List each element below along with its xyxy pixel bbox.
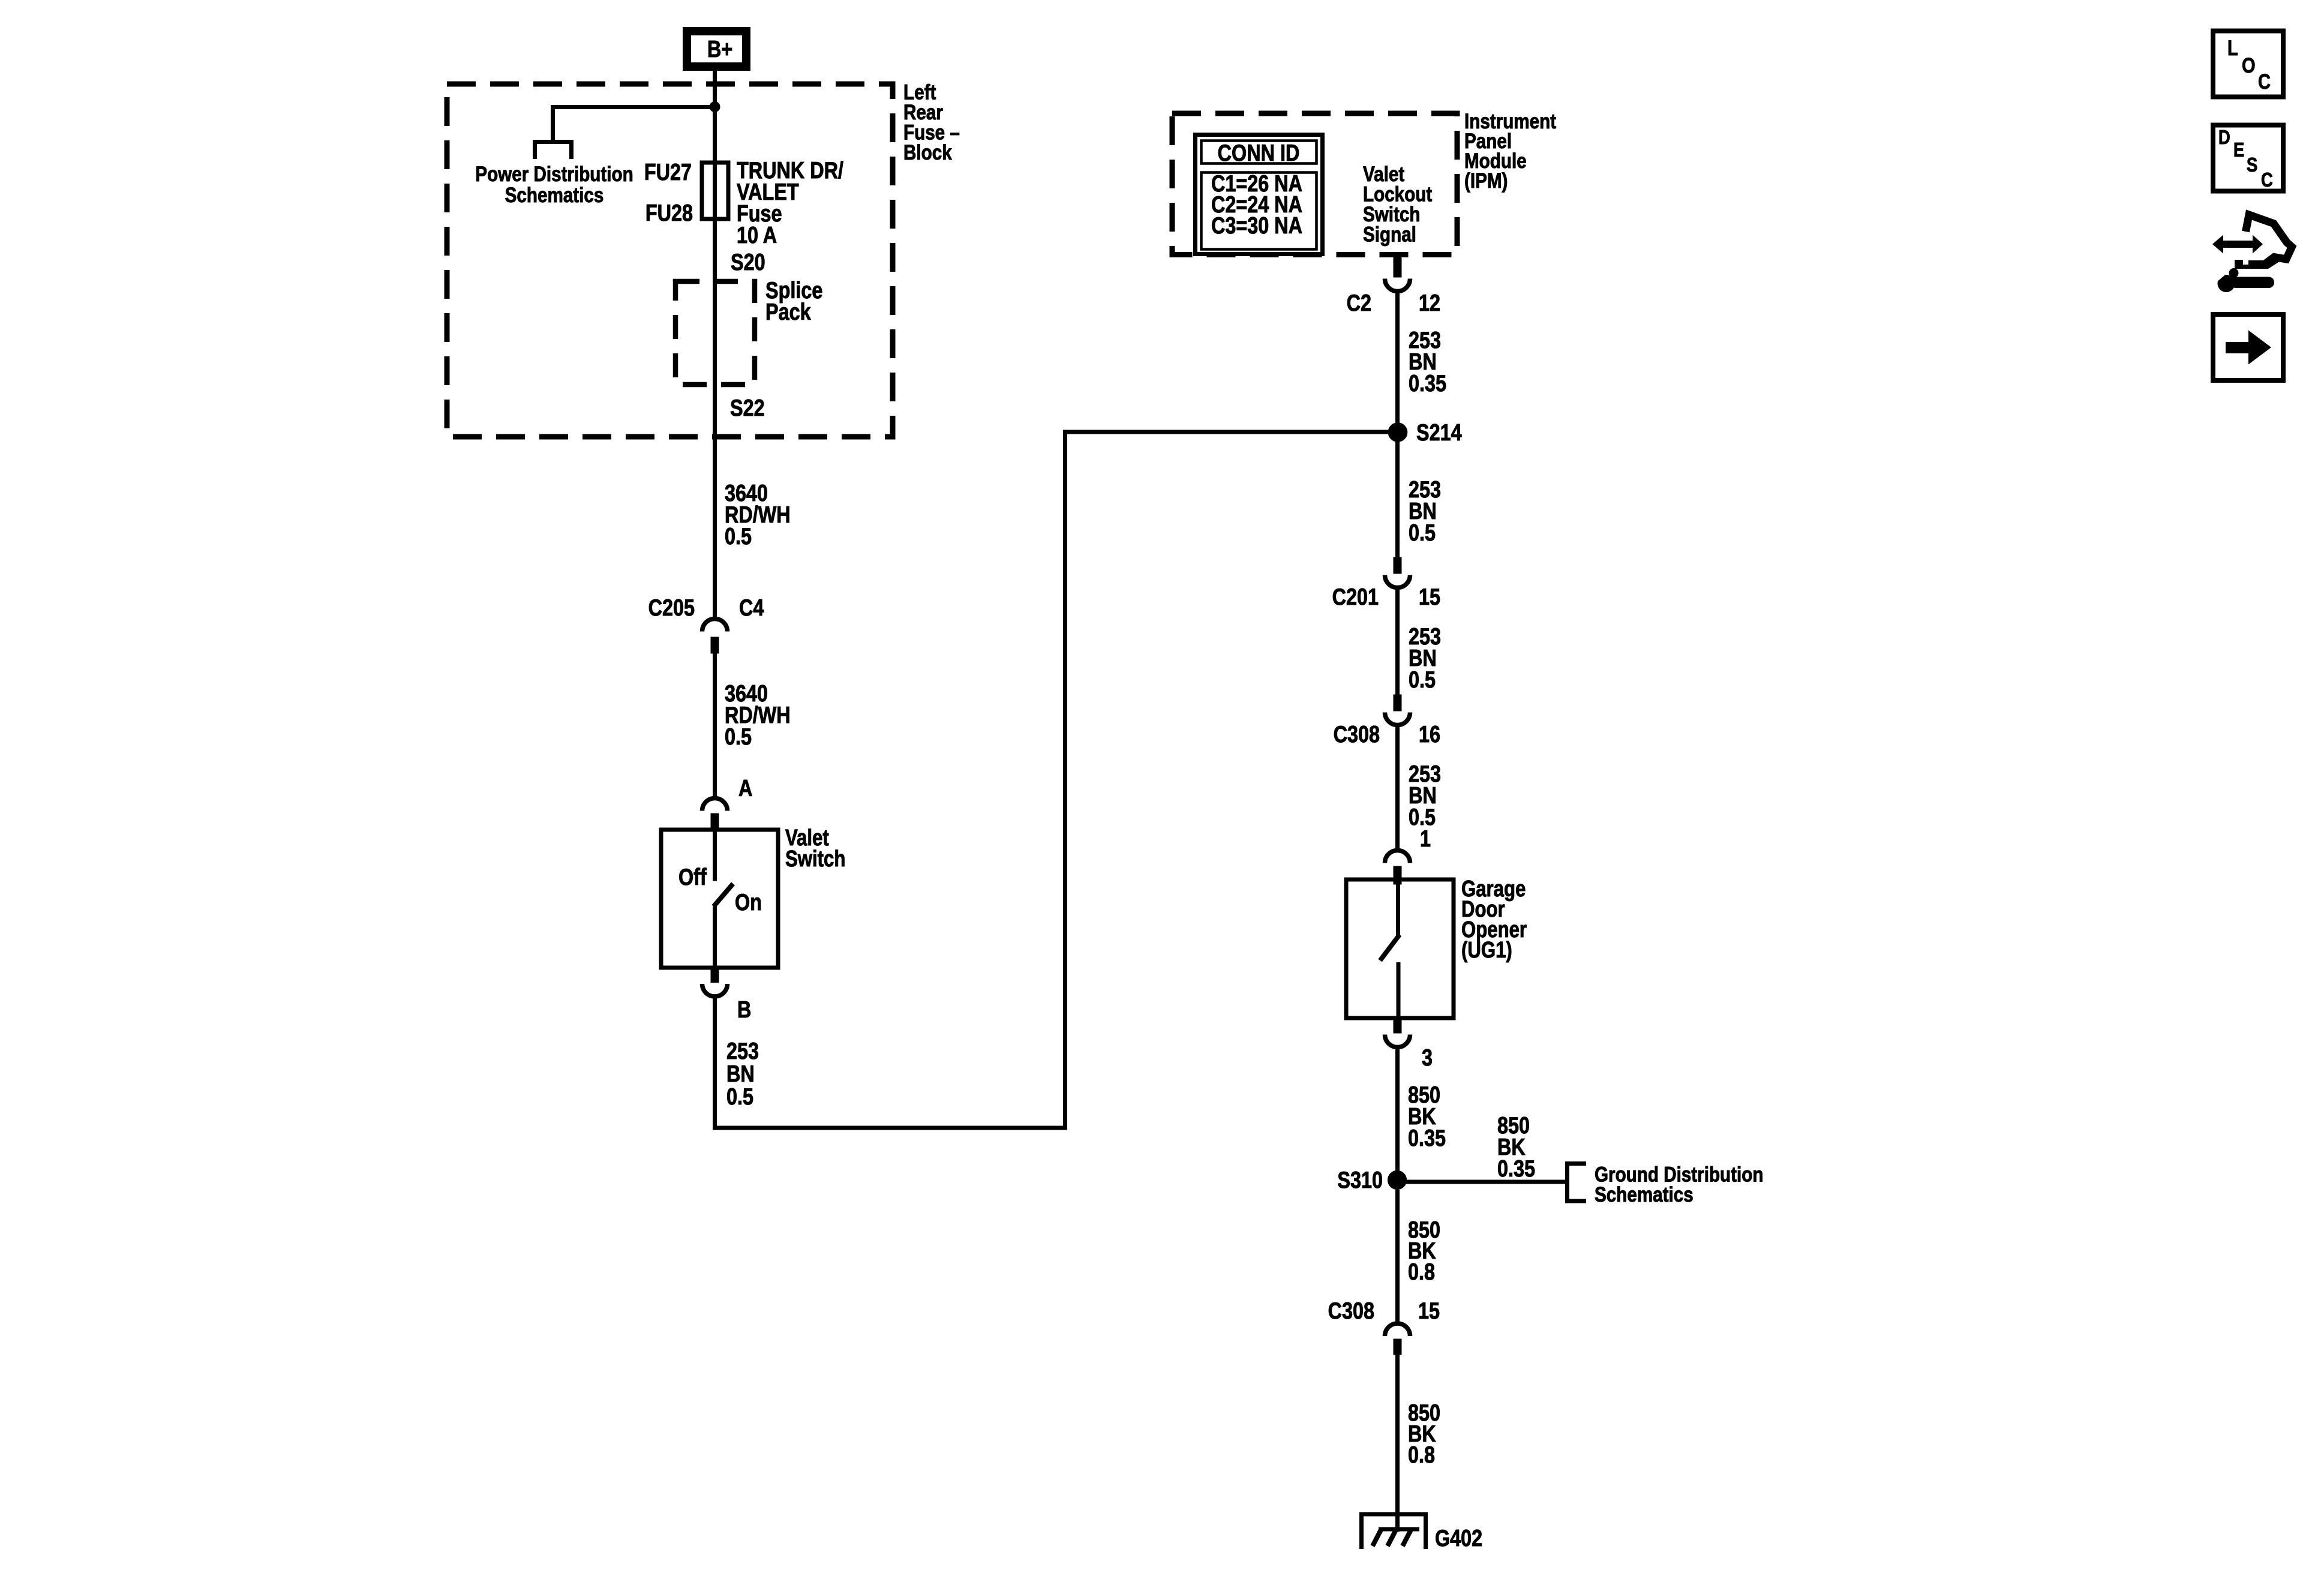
svg-text:Signal: Signal: [1363, 222, 1416, 246]
pin label 16: [1419, 721, 1440, 748]
label Garage Door Opener (UG1): [1461, 876, 1527, 963]
svg-text:A: A: [738, 775, 752, 801]
svg-text:3: 3: [1422, 1044, 1433, 1071]
wire label 253 BN 0.5 (C201 to C308): [1409, 623, 1441, 693]
ground symbol G402: [1359, 1514, 1428, 1549]
junction S214: [1388, 423, 1407, 442]
svg-text:C3=30 NA: C3=30 NA: [1211, 212, 1302, 239]
icon DESC box: [2213, 125, 2283, 191]
wire label 850 BK 0.35 (left): [1408, 1082, 1446, 1151]
svg-text:S310: S310: [1337, 1167, 1383, 1193]
svg-text:CONN ID: CONN ID: [1218, 140, 1300, 166]
label Valet Lockout Switch Signal: [1363, 161, 1432, 246]
instrument panel module box (dashed): [1172, 113, 1457, 255]
icon LOC box: [2213, 31, 2283, 97]
svg-text:C4: C4: [739, 595, 764, 621]
wire C308-15 to ground G402: [1395, 1355, 1400, 1532]
svg-text:Pack: Pack: [765, 299, 811, 325]
label Splice Pack: [765, 277, 822, 325]
svg-text:15: 15: [1419, 584, 1440, 610]
wire valet B to S214: [715, 432, 1398, 1128]
svg-text:16: 16: [1419, 721, 1440, 748]
wire C4 to valet switch pin A: [713, 653, 717, 798]
svg-text:(IPM): (IPM): [1464, 168, 1508, 192]
power symbol B+: [687, 31, 746, 67]
svg-text:O: O: [2242, 53, 2256, 77]
wire branch to power distribution: [553, 107, 715, 142]
node label S20: [731, 249, 765, 275]
ground label G402: [1435, 1525, 1482, 1551]
svg-text:FU28: FU28: [645, 200, 693, 226]
wire label 850 BK 0.8 (lower): [1408, 1400, 1440, 1468]
fuse block box Left Rear Fuse Block (dashed): [447, 84, 893, 437]
wire C201 to C308: [1395, 587, 1400, 695]
pin label 3: [1422, 1044, 1433, 1071]
svg-text:C: C: [2258, 70, 2271, 93]
wire label 3640 RD/WH 0.5 (upper): [725, 480, 791, 550]
svg-text:(UG1): (UG1): [1461, 938, 1512, 963]
splice pack box (dashed): [675, 281, 755, 385]
node label S310: [1337, 1167, 1383, 1193]
svg-text:BN: BN: [726, 1061, 755, 1087]
wire label 253 BN 0.5 (S214 to C201): [1409, 476, 1441, 546]
pin label 15 (C308): [1418, 1298, 1440, 1324]
svg-text:15: 15: [1418, 1298, 1440, 1324]
connector pin A symbol: [702, 798, 728, 830]
garage door opener switch contacts and blade: [1380, 881, 1400, 1016]
connector label C2: [1347, 290, 1371, 316]
pin label 15: [1419, 584, 1440, 610]
svg-text:C308: C308: [1328, 1298, 1374, 1324]
wire C2-12 to S214: [1395, 291, 1400, 557]
svg-text:C2: C2: [1347, 290, 1371, 316]
connector C2 pin 12 symbol: [1385, 256, 1410, 292]
svg-text:1: 1: [1420, 825, 1431, 852]
svg-text:0.5: 0.5: [1409, 520, 1436, 546]
svg-text:0.35: 0.35: [1408, 1125, 1446, 1151]
svg-text:B: B: [737, 996, 751, 1023]
junction S310: [1388, 1170, 1406, 1189]
wire label 3640 RD/WH 0.5 (lower): [725, 680, 791, 750]
svg-text:Switch: Switch: [785, 846, 845, 872]
valet switch box: [661, 830, 778, 968]
table header CONN ID: [1218, 140, 1300, 166]
node label S214: [1416, 419, 1462, 446]
svg-text:Schematics: Schematics: [1595, 1182, 1694, 1206]
svg-text:G402: G402: [1435, 1525, 1482, 1551]
note Power Distribution Schematics: [475, 161, 633, 206]
wire label 253 BN 0.35 (IPM): [1409, 327, 1446, 397]
label Left Rear Fuse Block: [903, 80, 960, 164]
wire S310 to C308-15: [1395, 1190, 1400, 1323]
CONN ID table: [1196, 135, 1323, 254]
label On: [735, 889, 762, 915]
connector C201 pin 15 symbol: [1385, 557, 1410, 588]
svg-text:S20: S20: [731, 249, 765, 275]
svg-text:0.35: 0.35: [1497, 1155, 1535, 1182]
connector label C308 (16): [1334, 721, 1380, 748]
wire label 850 BK 0.8 (upper): [1408, 1217, 1440, 1285]
svg-text:0.8: 0.8: [1408, 1259, 1435, 1285]
pin label FU27: [644, 159, 692, 185]
svg-text:0.5: 0.5: [1409, 667, 1436, 693]
pin label 12: [1419, 290, 1440, 316]
svg-text:10 A: 10 A: [737, 222, 777, 248]
svg-text:S214: S214: [1416, 419, 1462, 446]
svg-text:Block: Block: [903, 140, 952, 164]
connector pin 1 symbol: [1385, 851, 1410, 885]
value label TRUNK DR/ VALET Fuse 10 A: [737, 157, 843, 248]
svg-text:0.5: 0.5: [725, 724, 752, 750]
pin label FU28: [645, 200, 693, 226]
table rows C1 C2 C3: [1211, 170, 1302, 239]
wire label 850 BK 0.35 (right): [1497, 1112, 1535, 1182]
note Ground Distribution Schematics: [1595, 1162, 1763, 1206]
svg-text:C201: C201: [1332, 584, 1379, 610]
wire pin 3 to S310: [1395, 1047, 1400, 1171]
connector C205/C4 symbol: [702, 619, 728, 654]
connector pin B symbol: [702, 966, 728, 996]
svg-text:S: S: [2247, 155, 2257, 176]
pin label 1: [1420, 825, 1431, 852]
svg-text:D: D: [2218, 127, 2230, 149]
svg-text:FU27: FU27: [644, 159, 692, 185]
wire label 253 BN 0.5 (to UG1): [1409, 761, 1441, 830]
svg-text:On: On: [735, 889, 762, 915]
label Off: [678, 864, 707, 890]
svg-text:0.35: 0.35: [1409, 370, 1446, 397]
connector C308 pin 15 symbol: [1385, 1323, 1410, 1355]
label Valet Switch: [785, 825, 845, 872]
power distribution tab symbol: [533, 140, 574, 159]
connector C308 pin 16 symbol: [1385, 695, 1410, 725]
svg-text:Off: Off: [678, 864, 707, 890]
svg-text:C205: C205: [648, 595, 695, 621]
valet switch contacts and blade: [714, 831, 734, 966]
svg-text:C308: C308: [1334, 721, 1380, 748]
wire S20 to S22 through splice pack: [713, 280, 717, 619]
svg-text:253: 253: [726, 1038, 759, 1064]
svg-text:L: L: [2227, 36, 2238, 59]
connector label C308 (15): [1328, 1298, 1374, 1324]
connector label C201: [1332, 584, 1379, 610]
svg-text:C: C: [2261, 170, 2273, 191]
wire S310 to ground distribution: [1397, 1180, 1568, 1184]
svg-text:S22: S22: [730, 395, 765, 421]
pin label C4: [739, 595, 764, 621]
svg-text:12: 12: [1419, 290, 1440, 316]
off-page bracket to ground distribution: [1568, 1164, 1587, 1202]
svg-text:0.5: 0.5: [726, 1083, 753, 1110]
svg-text:B+: B+: [707, 36, 732, 62]
icon arrow box: [2213, 314, 2283, 380]
wire C308 to garage door opener pin 1: [1395, 725, 1400, 850]
label Instrument Panel Module (IPM): [1464, 109, 1556, 192]
wire B+ to fuse FU27: [713, 71, 717, 164]
svg-text:Schematics: Schematics: [505, 182, 604, 206]
fuse FU27/FU28 TRUNK DR/VALET Fuse 10 A: [702, 163, 728, 280]
connector pin 3 symbol: [1385, 1018, 1410, 1047]
svg-text:E: E: [2233, 140, 2244, 161]
svg-text:0.8: 0.8: [1408, 1442, 1435, 1468]
pin label B: [737, 996, 751, 1023]
wire label 253 BN 0.5 (valet): [726, 1038, 759, 1110]
garage door opener box: [1346, 879, 1454, 1018]
icon wrench and arrows: [2211, 215, 2292, 292]
node label S22: [730, 395, 765, 421]
junction node below B+: [710, 102, 720, 112]
connector label C205: [648, 595, 695, 621]
pin label A: [738, 775, 752, 801]
svg-text:0.5: 0.5: [725, 523, 752, 550]
